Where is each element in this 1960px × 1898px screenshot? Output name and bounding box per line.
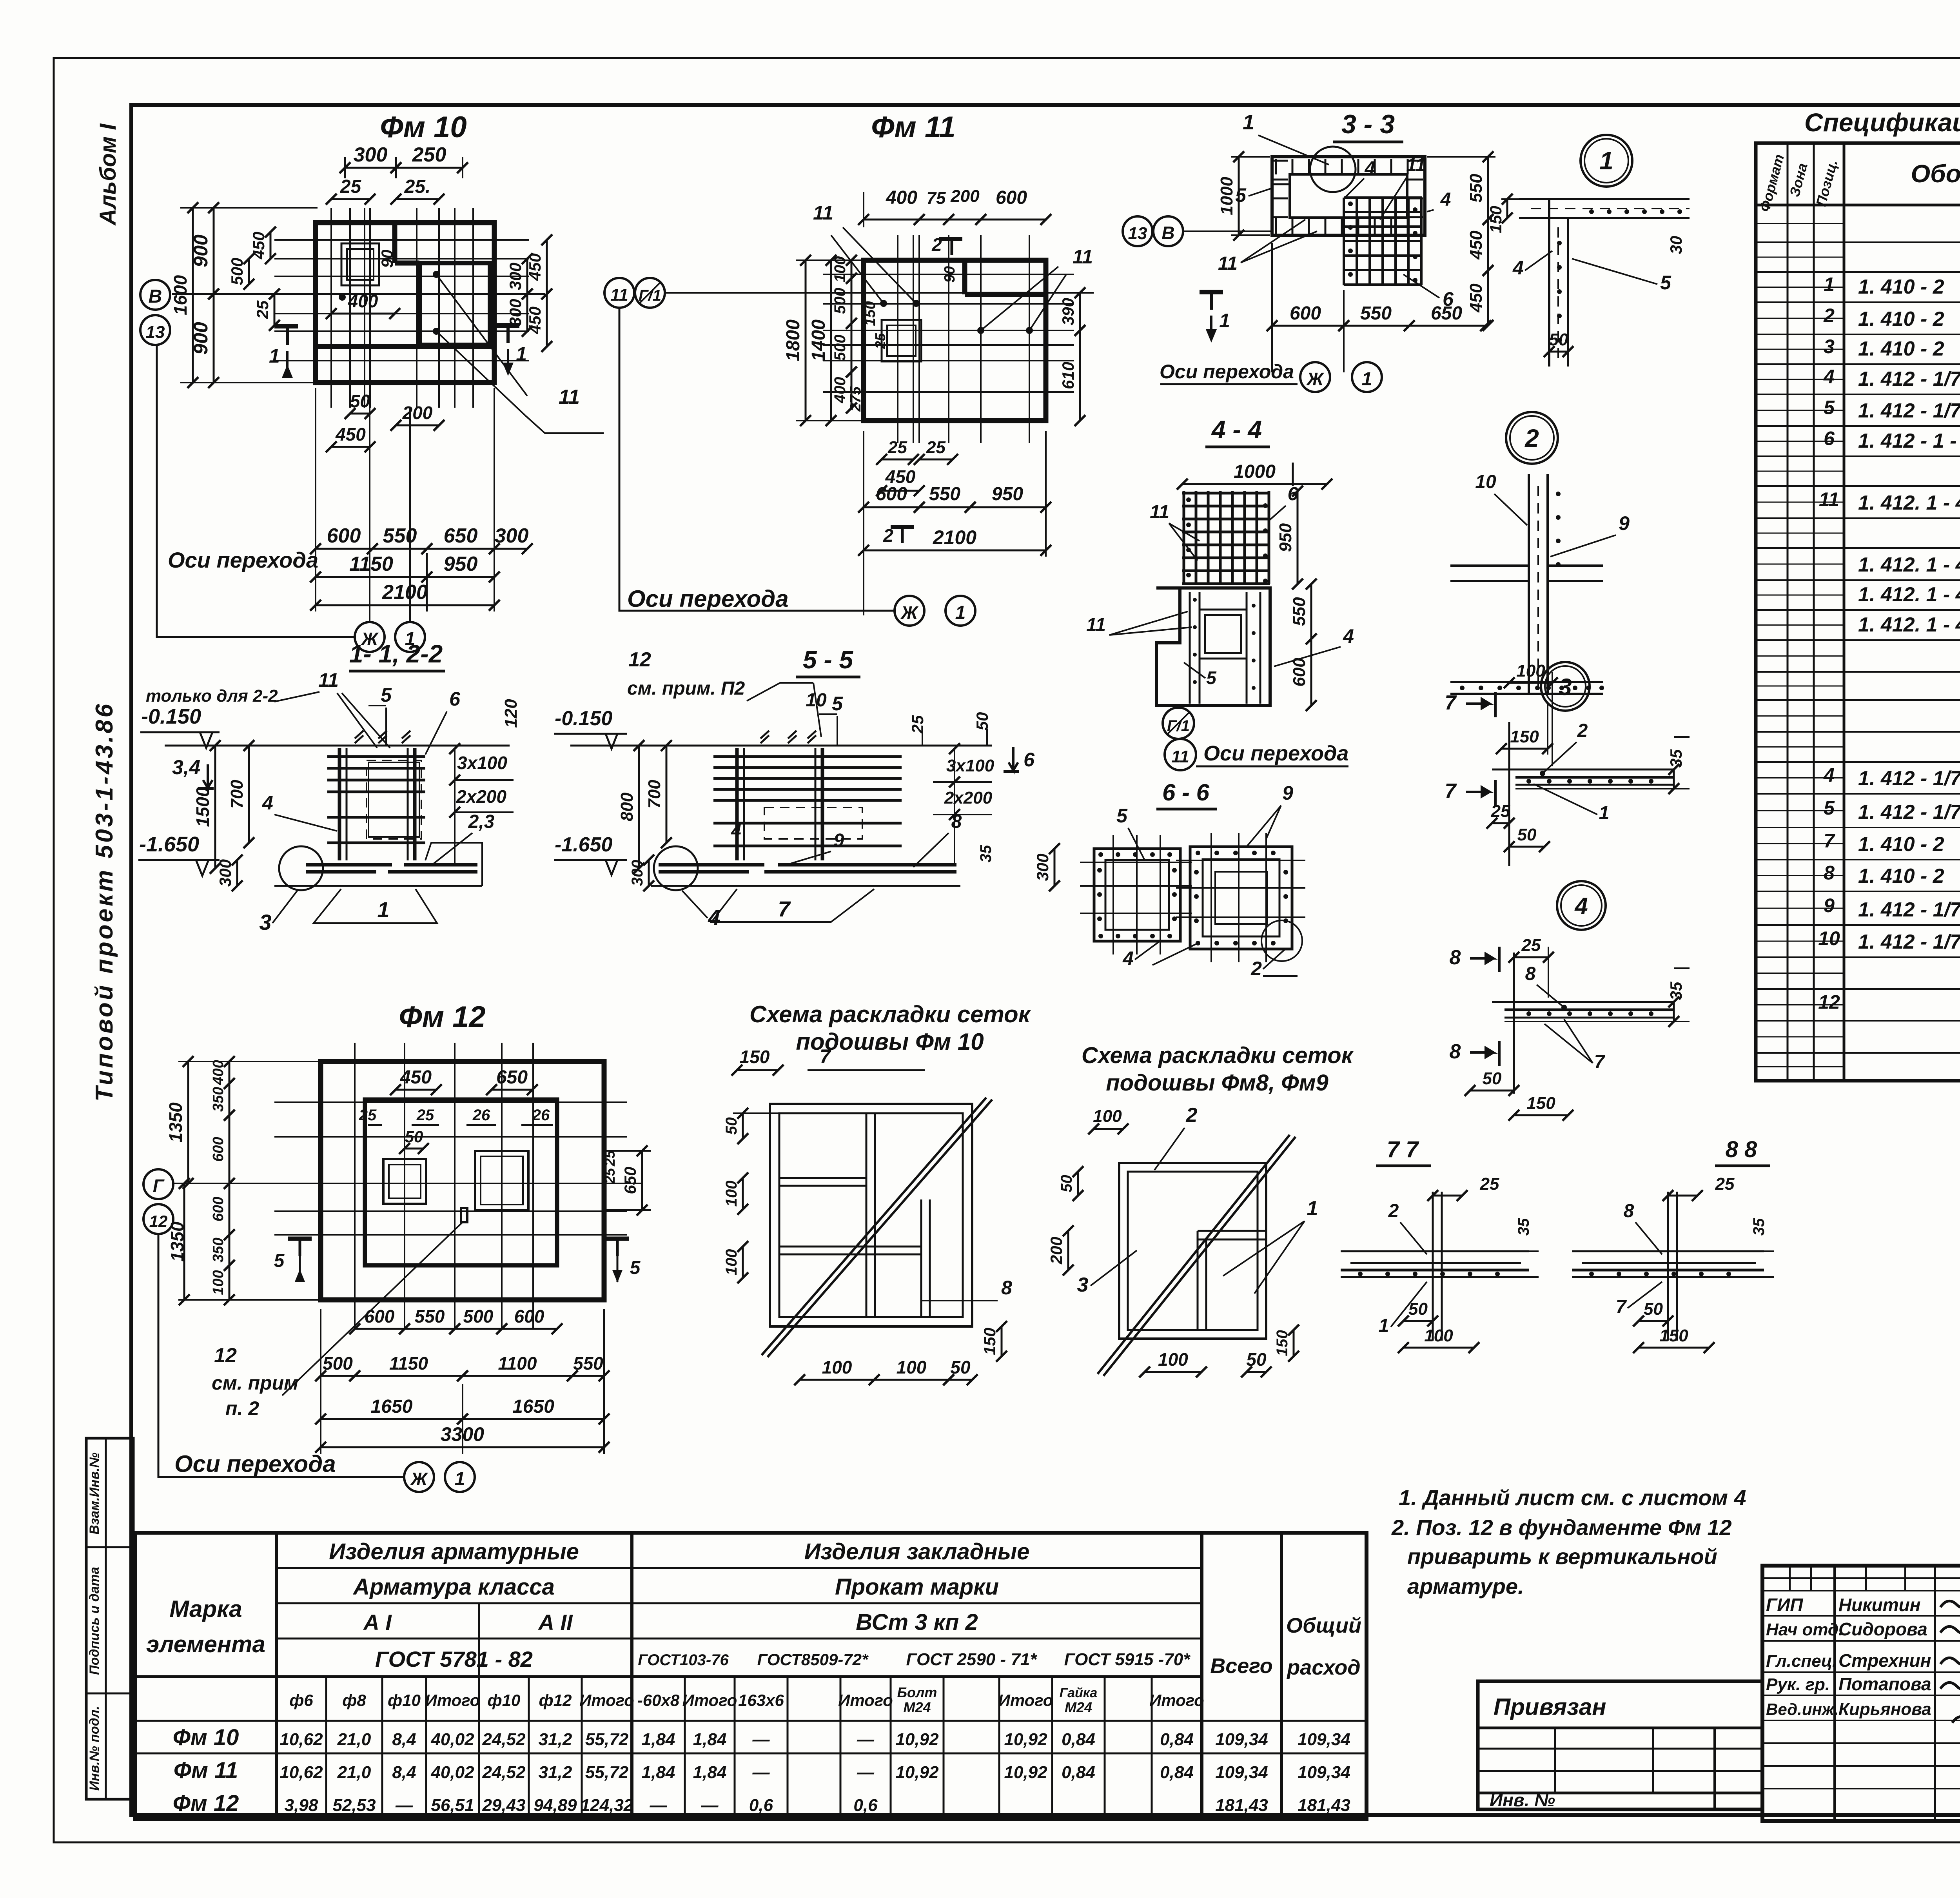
- svg-text:1150: 1150: [389, 1353, 428, 1374]
- svg-text:1500: 1500: [192, 787, 213, 827]
- svg-text:В: В: [1161, 223, 1174, 243]
- node 1 slab bars: [1589, 209, 1594, 214]
- svg-text:800: 800: [617, 792, 637, 821]
- title block signatures: [1940, 1598, 1960, 1608]
- section 3-3 wall U-shape: [1272, 157, 1425, 235]
- svg-text:10: 10: [1818, 927, 1840, 949]
- svg-text:11: 11: [1086, 615, 1106, 635]
- section 4-4 dim 1000: [1182, 483, 1327, 485]
- svg-text:0,84: 0,84: [1062, 1763, 1095, 1782]
- svg-text:5: 5: [1824, 797, 1835, 819]
- svg-text:Фм 11: Фм 11: [871, 111, 956, 144]
- svg-text:1: 1: [516, 343, 527, 365]
- svg-text:500: 500: [228, 258, 246, 285]
- svg-text:450: 450: [526, 307, 544, 334]
- stirrup marks (1-1): [355, 731, 363, 743]
- svg-text:25: 25: [908, 715, 927, 734]
- svg-text:9: 9: [834, 830, 844, 851]
- svg-text:Потапова: Потапова: [1838, 1674, 1931, 1694]
- svg-text:ГОСТ 5915 -70*: ГОСТ 5915 -70*: [1064, 1650, 1191, 1669]
- section 6-6 left dots: [1098, 852, 1103, 857]
- svg-text:6: 6: [1824, 428, 1835, 450]
- axis circle 1 (Фм12): [445, 1462, 475, 1492]
- svg-text:1,84: 1,84: [642, 1730, 675, 1749]
- svg-text:только для 2-2: только для 2-2: [146, 686, 278, 706]
- svg-text:Изделия закладные: Изделия закладные: [804, 1539, 1030, 1564]
- plan Фм12 dims bottom rows: [355, 1328, 405, 1330]
- svg-text:2100: 2100: [382, 581, 428, 604]
- plan Фм12 axis line Г: [173, 1183, 643, 1184]
- scheme Фм8 inner sheet lines: [1198, 1230, 1266, 1232]
- svg-text:2: 2: [1577, 720, 1588, 741]
- svg-text:7: 7: [1616, 1297, 1627, 1317]
- section 8-8 slab: [1572, 1250, 1764, 1252]
- svg-text:100: 100: [822, 1357, 852, 1377]
- svg-text:90: 90: [942, 266, 958, 283]
- section 7-7 bar dots: [1358, 1272, 1363, 1276]
- svg-text:25: 25: [602, 1168, 618, 1184]
- svg-text:1. 412. 1 - 4. 080 - 1: 1. 412. 1 - 4. 080 - 1: [1858, 583, 1960, 606]
- svg-text:25: 25: [887, 438, 907, 457]
- svg-text:11: 11: [1171, 747, 1189, 766]
- svg-text:5: 5: [1206, 668, 1217, 688]
- svg-text:109,34: 109,34: [1298, 1763, 1350, 1782]
- svg-text:25: 25: [926, 438, 946, 457]
- svg-text:150: 150: [980, 1328, 999, 1355]
- svg-text:11: 11: [610, 285, 628, 305]
- svg-text:11: 11: [1073, 246, 1093, 268]
- node 2 dim 150: [1501, 748, 1548, 750]
- axis circle Ж (Фм10): [355, 622, 385, 652]
- svg-text:7: 7: [1445, 780, 1457, 802]
- svg-text:Типовой проект 503-1-43.86: Типовой проект 503-1-43.86: [91, 702, 118, 1101]
- svg-text:50: 50: [973, 712, 991, 731]
- svg-text:7 7: 7 7: [1387, 1137, 1419, 1162]
- scheme Фм8 outline: [1119, 1163, 1266, 1339]
- svg-text:0,84: 0,84: [1062, 1730, 1095, 1749]
- svg-text:7: 7: [1824, 830, 1835, 852]
- svg-text:50: 50: [405, 1127, 423, 1146]
- plan Фм11 section mark 1 right: [1200, 290, 1223, 294]
- svg-text:ГОСТ8509-72*: ГОСТ8509-72*: [757, 1650, 869, 1669]
- svg-text:1. 412 - 1/77: 1. 412 - 1/77: [1858, 931, 1960, 953]
- scheme Фм10 diagonal: [762, 1098, 986, 1355]
- plan Фм11 grid lines: [897, 235, 898, 443]
- svg-text:1. 412 - 1/77: 1. 412 - 1/77: [1858, 767, 1960, 790]
- svg-text:4: 4: [1365, 158, 1376, 179]
- svg-text:Фм 12: Фм 12: [173, 1791, 239, 1816]
- svg-text:0,6: 0,6: [853, 1796, 878, 1815]
- section 4-4 lower bars: [1189, 592, 1191, 704]
- svg-text:450: 450: [526, 253, 544, 281]
- svg-text:200: 200: [950, 187, 980, 206]
- svg-text:Спецификация фундаментов Фм8: Спецификация фундаментов Фм8... Фм10: [1804, 108, 1960, 137]
- svg-text:Ж: Ж: [900, 602, 919, 623]
- svg-text:150: 150: [1659, 1326, 1688, 1345]
- plan Фм11 section mark 2 top: [939, 237, 962, 241]
- axis circle 1b (Фм11): [946, 596, 975, 626]
- axis circle 11 (4-4): [1165, 739, 1196, 770]
- section 6-6 right stirrup: [1190, 847, 1292, 949]
- dim 300 (1-1): [236, 860, 238, 886]
- svg-text:25: 25: [416, 1107, 434, 1124]
- svg-text:35: 35: [1667, 982, 1685, 1000]
- svg-text:1,84: 1,84: [693, 1763, 727, 1782]
- svg-text:100: 100: [1158, 1349, 1188, 1370]
- svg-text:Общий: Общий: [1286, 1614, 1361, 1637]
- svg-text:200: 200: [402, 403, 433, 423]
- svg-text:650: 650: [444, 524, 478, 547]
- svg-text:А II: А II: [537, 1610, 573, 1635]
- svg-text:10,92: 10,92: [895, 1730, 939, 1749]
- svg-text:900: 900: [190, 322, 212, 355]
- svg-text:29,43: 29,43: [482, 1796, 525, 1815]
- specification table grid: [1756, 143, 1960, 1081]
- node 4 bar dots: [1526, 1011, 1531, 1016]
- svg-text:Фм 10: Фм 10: [380, 111, 466, 144]
- svg-text:500: 500: [463, 1306, 494, 1326]
- left margin inventory boxes: [86, 1438, 133, 1799]
- svg-text:-1.650: -1.650: [139, 833, 199, 856]
- svg-text:25: 25: [359, 1107, 377, 1124]
- svg-text:2: 2: [883, 525, 893, 546]
- svg-text:11: 11: [559, 386, 580, 408]
- dims 800 700 (5-5): [638, 746, 640, 868]
- svg-text:35: 35: [1667, 749, 1685, 768]
- svg-text:31,2: 31,2: [539, 1763, 572, 1782]
- node 2 tee wall: [1528, 474, 1530, 694]
- svg-text:1400: 1400: [808, 319, 829, 361]
- axis circle 13 (3-3): [1123, 216, 1152, 246]
- column bars (5-5): [735, 748, 739, 860]
- svg-text:1: 1: [955, 602, 966, 623]
- svg-text:1- 1, 2-2: 1- 1, 2-2: [349, 640, 443, 668]
- plan Фм11 anchor bolts: [880, 300, 887, 307]
- svg-text:12: 12: [214, 1344, 237, 1367]
- section 4-4 top mesh: [1183, 491, 1185, 584]
- svg-text:150: 150: [1526, 1094, 1555, 1113]
- plan Фм11 section mark 2 bottom: [891, 525, 914, 529]
- svg-text:950: 950: [992, 484, 1023, 504]
- svg-text:350: 350: [210, 1238, 227, 1262]
- svg-text:650: 650: [1431, 303, 1462, 324]
- dim 300 (5-5): [648, 860, 650, 886]
- svg-text:900: 900: [190, 234, 212, 267]
- svg-text:1. 410 - 2: 1. 410 - 2: [1858, 833, 1944, 856]
- svg-text:600: 600: [210, 1197, 227, 1221]
- svg-text:—: —: [857, 1763, 875, 1782]
- svg-text:610: 610: [1059, 362, 1077, 389]
- svg-text:109,34: 109,34: [1215, 1730, 1268, 1749]
- node 3 slab: [1508, 722, 1510, 866]
- svg-text:11: 11: [1218, 253, 1238, 274]
- svg-text:150: 150: [740, 1047, 770, 1067]
- section mark 1 left: [274, 324, 298, 328]
- svg-text:50: 50: [1483, 1069, 1502, 1088]
- plan Фм10 column socket: [419, 263, 490, 345]
- node 3 dims: [1509, 682, 1552, 684]
- svg-text:элемента: элемента: [146, 1631, 265, 1657]
- svg-text:124,32: 124,32: [581, 1796, 633, 1815]
- svg-text:600: 600: [327, 524, 361, 547]
- scheme Фм10 inner sheet lines: [866, 1113, 867, 1317]
- section 7-7 slab: [1341, 1250, 1529, 1252]
- svg-text:4 - 4: 4 - 4: [1211, 416, 1262, 444]
- svg-text:4: 4: [1823, 764, 1835, 786]
- svg-text:Итого: Итого: [1149, 1691, 1204, 1709]
- svg-text:50: 50: [723, 1117, 740, 1135]
- svg-text:10,92: 10,92: [1004, 1730, 1047, 1749]
- svg-text:1: 1: [1219, 310, 1230, 332]
- svg-text:600: 600: [996, 187, 1027, 208]
- axis leader to Ж (Фм11): [619, 308, 895, 611]
- svg-text:12: 12: [628, 648, 651, 671]
- svg-text:450: 450: [1466, 230, 1486, 260]
- svg-text:1. 410 - 2: 1. 410 - 2: [1858, 865, 1944, 887]
- svg-text:24,52: 24,52: [482, 1763, 526, 1782]
- svg-text:9: 9: [1619, 512, 1630, 534]
- svg-text:4: 4: [1122, 947, 1134, 969]
- dims 3x100 2x200 (1-1): [454, 749, 456, 866]
- svg-text:950: 950: [444, 553, 478, 575]
- svg-text:Подпись и дата: Подпись и дата: [87, 1567, 102, 1675]
- svg-text:ф6: ф6: [289, 1691, 313, 1709]
- svg-text:1. 412 - 1/77: 1. 412 - 1/77: [1858, 399, 1960, 422]
- scheme Фм10 outline: [770, 1104, 972, 1326]
- axis circle 1 (Фм10): [395, 622, 425, 652]
- svg-text:см. прим: см. прим: [212, 1372, 298, 1394]
- svg-text:25: 25: [872, 333, 888, 349]
- svg-text:163х6: 163х6: [738, 1691, 784, 1709]
- svg-text:2х200: 2х200: [456, 786, 506, 807]
- svg-text:94,89: 94,89: [534, 1796, 577, 1815]
- svg-text:25.: 25.: [404, 176, 431, 197]
- svg-text:1: 1: [1599, 803, 1610, 824]
- plan Фм10 dims bottom rows: [316, 548, 372, 550]
- section 8-8 verticals: [1667, 1192, 1669, 1341]
- svg-text:150: 150: [1274, 1330, 1291, 1356]
- svg-text:50: 50: [1246, 1349, 1267, 1370]
- plan Фм11 axis line: [665, 292, 1094, 294]
- svg-text:25: 25: [1491, 802, 1510, 821]
- section 6-6 left stirrup: [1094, 849, 1180, 941]
- svg-text:3х100: 3х100: [946, 756, 995, 775]
- svg-text:11: 11: [813, 202, 833, 224]
- svg-text:1000: 1000: [1234, 461, 1276, 482]
- svg-text:Итого: Итого: [838, 1691, 893, 1709]
- svg-text:1,84: 1,84: [693, 1730, 727, 1749]
- plan Фм11 leaders to pos 11: [831, 235, 884, 303]
- svg-text:1: 1: [1243, 111, 1254, 134]
- svg-text:21,0: 21,0: [337, 1730, 371, 1749]
- svg-text:Оси перехода: Оси перехода: [1160, 361, 1294, 383]
- svg-text:8: 8: [1624, 1201, 1634, 1221]
- node circle 1: [1581, 135, 1632, 187]
- svg-text:25: 25: [1715, 1174, 1735, 1194]
- svg-text:40,02: 40,02: [430, 1730, 474, 1749]
- svg-text:450: 450: [1466, 283, 1486, 313]
- svg-text:—: —: [395, 1796, 413, 1815]
- svg-text:2: 2: [1823, 305, 1835, 327]
- svg-text:1650: 1650: [371, 1396, 413, 1417]
- svg-text:Сидорова: Сидорова: [1838, 1619, 1927, 1639]
- attachment (Привязан) table: [1478, 1681, 1762, 1809]
- svg-text:2х200: 2х200: [944, 788, 993, 807]
- svg-text:5: 5: [630, 1257, 641, 1278]
- svg-text:8: 8: [951, 811, 962, 832]
- svg-text:2100: 2100: [933, 526, 976, 548]
- svg-text:1. 412 - 1/77: 1. 412 - 1/77: [1858, 801, 1960, 824]
- svg-text:8 8: 8 8: [1726, 1137, 1757, 1162]
- svg-text:Схема раскладки сеток: Схема раскладки сеток: [1082, 1043, 1354, 1068]
- svg-text:550: 550: [1466, 174, 1486, 203]
- svg-text:—: —: [701, 1796, 719, 1815]
- svg-text:1: 1: [377, 897, 389, 922]
- svg-text:4: 4: [1823, 366, 1835, 388]
- svg-text:1. 410 - 2: 1. 410 - 2: [1858, 338, 1944, 360]
- svg-text:1. 412 - 1/77: 1. 412 - 1/77: [1858, 898, 1960, 921]
- svg-text:Вед.инж.: Вед.инж.: [1766, 1700, 1838, 1718]
- svg-text:Всего: Всего: [1210, 1654, 1273, 1678]
- svg-text:ф12: ф12: [539, 1691, 572, 1709]
- svg-text:—: —: [752, 1730, 770, 1749]
- svg-text:8: 8: [1001, 1277, 1012, 1299]
- svg-text:-0.150: -0.150: [141, 705, 201, 728]
- svg-text:Гл.спец.: Гл.спец.: [1766, 1651, 1837, 1671]
- svg-text:300: 300: [354, 143, 388, 166]
- axis circle В (3-3): [1153, 216, 1183, 246]
- svg-text:31,2: 31,2: [539, 1730, 572, 1749]
- dashed plate (5-5): [764, 807, 862, 839]
- svg-text:650: 650: [496, 1067, 528, 1088]
- svg-text:Взам.Инв.№: Взам.Инв.№: [87, 1452, 102, 1534]
- bottom slab (5-5): [651, 885, 960, 887]
- svg-text:50: 50: [1549, 330, 1568, 349]
- axis circle Г/1 (Фм11): [635, 278, 665, 308]
- svg-text:Никитин: Никитин: [1838, 1595, 1921, 1615]
- svg-text:8: 8: [1525, 964, 1536, 984]
- svg-text:50: 50: [350, 391, 370, 411]
- svg-text:А I: А I: [363, 1610, 392, 1635]
- svg-text:8,4: 8,4: [392, 1730, 416, 1749]
- axis circle 11 (Фм11): [604, 278, 634, 308]
- svg-text:Инв.№ подл.: Инв.№ подл.: [87, 1706, 102, 1791]
- svg-text:100: 100: [723, 1181, 740, 1207]
- svg-text:10,92: 10,92: [1004, 1763, 1047, 1782]
- svg-text:181,43: 181,43: [1215, 1796, 1268, 1815]
- plan Фм12 weld plate mark: [461, 1208, 467, 1222]
- svg-text:650: 650: [621, 1167, 639, 1194]
- plan Фм12 sockets: [383, 1159, 426, 1204]
- svg-text:50: 50: [1058, 1175, 1075, 1192]
- svg-text:1. 412 - 1/77: 1. 412 - 1/77: [1858, 368, 1960, 390]
- svg-text:1. 412. 1 - 4. 080 - 2: 1. 412. 1 - 4. 080 - 2: [1858, 613, 1960, 636]
- svg-text:13: 13: [1128, 224, 1147, 243]
- svg-text:1. 412. 1 - 4. 080: 1. 412. 1 - 4. 080: [1858, 553, 1960, 576]
- svg-text:24,52: 24,52: [482, 1730, 526, 1749]
- svg-text:275: 275: [848, 386, 864, 412]
- svg-text:26: 26: [472, 1107, 490, 1124]
- svg-text:Ж: Ж: [1306, 369, 1325, 389]
- svg-text:Оси перехода: Оси перехода: [1203, 742, 1348, 765]
- svg-text:5: 5: [1660, 272, 1671, 294]
- svg-text:Ж: Ж: [410, 1469, 428, 1489]
- svg-text:2: 2: [1524, 424, 1539, 452]
- title block staff rows: [1762, 1590, 1960, 1591]
- svg-text:5 - 5: 5 - 5: [803, 646, 853, 674]
- svg-text:-1.650: -1.650: [555, 833, 613, 856]
- svg-text:0,6: 0,6: [749, 1796, 773, 1815]
- svg-text:10,62: 10,62: [279, 1730, 323, 1749]
- svg-text:1: 1: [1307, 1197, 1318, 1220]
- svg-text:100: 100: [1516, 661, 1545, 680]
- svg-text:11: 11: [318, 669, 339, 691]
- svg-text:600: 600: [514, 1306, 544, 1326]
- svg-text:5: 5: [381, 684, 392, 706]
- svg-text:6: 6: [449, 688, 461, 710]
- svg-text:56,51: 56,51: [431, 1796, 474, 1815]
- node circle 3 on slab (1-1): [279, 846, 323, 890]
- svg-text:Рук. гр.: Рук. гр.: [1766, 1675, 1830, 1694]
- svg-text:250: 250: [412, 143, 446, 166]
- svg-text:600: 600: [876, 484, 907, 504]
- materials table grid: [135, 1533, 1367, 1819]
- svg-text:1: 1: [1379, 1316, 1389, 1336]
- svg-text:550: 550: [1290, 597, 1309, 626]
- svg-text:350: 350: [210, 1087, 227, 1112]
- svg-text:М24: М24: [903, 1699, 931, 1715]
- svg-text:25: 25: [1521, 936, 1541, 955]
- plan Фм10 dims top: [345, 167, 396, 169]
- svg-text:10: 10: [806, 690, 827, 711]
- plan Фм10 dims below-inner: [350, 413, 370, 415]
- plan Фм10 leader to pos 11: [436, 274, 527, 396]
- label 1 flag (1-1): [314, 889, 437, 923]
- svg-text:4: 4: [1440, 189, 1451, 210]
- svg-text:см. прим. П2: см. прим. П2: [627, 678, 745, 699]
- svg-text:Арматура класса: Арматура класса: [352, 1574, 555, 1600]
- svg-text:1100: 1100: [498, 1353, 537, 1374]
- svg-text:11: 11: [1406, 155, 1426, 176]
- plan Фм12 section marks 5: [288, 1237, 312, 1241]
- plan Фм11 dims top: [864, 219, 919, 221]
- svg-text:Фм 12: Фм 12: [399, 1000, 485, 1034]
- svg-text:12: 12: [149, 1212, 168, 1230]
- svg-text:100: 100: [897, 1357, 927, 1377]
- plan Фм10 axis line B: [172, 293, 545, 295]
- svg-text:Итого: Итого: [579, 1691, 634, 1709]
- svg-text:1. 410 - 2: 1. 410 - 2: [1858, 308, 1944, 330]
- svg-text:4: 4: [731, 820, 741, 841]
- svg-text:50: 50: [1517, 825, 1537, 844]
- svg-text:400: 400: [831, 377, 849, 404]
- svg-text:Кирьянова: Кирьянова: [1838, 1700, 1931, 1719]
- axis leader line to Ж: [157, 345, 355, 637]
- svg-text:600: 600: [210, 1137, 227, 1161]
- svg-text:100: 100: [1093, 1107, 1122, 1126]
- svg-text:Итого: Итого: [425, 1691, 480, 1709]
- svg-text:10,92: 10,92: [895, 1763, 939, 1782]
- svg-text:8,4: 8,4: [392, 1763, 416, 1782]
- svg-text:5: 5: [1824, 397, 1835, 419]
- svg-text:1. 410 - 2: 1. 410 - 2: [1858, 276, 1944, 298]
- plan Фм10 anchor plate: [341, 243, 379, 285]
- svg-text:1: 1: [455, 1469, 465, 1490]
- svg-text:11: 11: [1150, 502, 1169, 523]
- scheme Фм10 dims: [737, 1069, 778, 1071]
- node 4 slab: [1513, 953, 1515, 1094]
- svg-text:1650: 1650: [512, 1396, 554, 1417]
